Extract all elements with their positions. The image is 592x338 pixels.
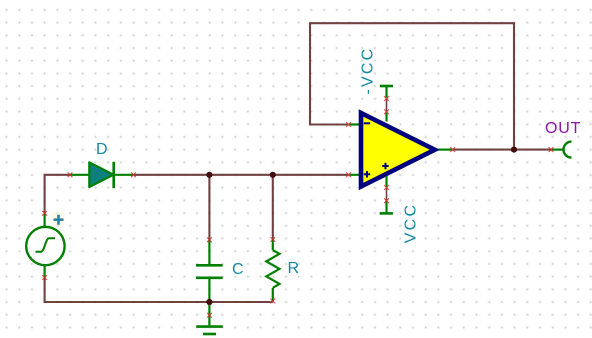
capacitor C (196, 240, 223, 302)
svg-text:-VCC: -VCC (360, 47, 377, 95)
pin marks: negative supply (384, 96, 389, 101)
pin mark: OUT terminal (549, 147, 554, 152)
wire: diode cathode to op-amp non-inverting input (134, 174, 349, 176)
voltage source (26, 213, 64, 277)
resistor R (266, 240, 279, 302)
wire: bottom rail from source to resistor (45, 278, 273, 303)
svg-text:D: D (96, 141, 108, 158)
OUT terminal (551, 142, 572, 158)
negative supply rail -VCC (380, 86, 393, 122)
diode D (70, 162, 133, 188)
wire: op-amp output to OUT terminal (453, 149, 552, 151)
pin marks: diode (68, 172, 73, 177)
svg-text:C: C (232, 261, 244, 278)
junction node: diode/cap (206, 172, 212, 178)
svg-text:OUT: OUT (545, 120, 581, 137)
pin marks: capacitor (207, 237, 212, 242)
svg-text:R: R (288, 260, 300, 277)
wire: negative supply jumper (386, 99, 388, 112)
wire: capacitor top branch (208, 175, 210, 240)
pin marks: op-amp inputs (346, 122, 351, 127)
pin mark: op-amp output (450, 147, 455, 152)
wire: source top to diode anode (45, 175, 70, 214)
pin marks: source (42, 211, 47, 216)
wire: feedback loop from inverting input up and over to output node (310, 23, 514, 149)
label + (source polarity) (52, 213, 65, 226)
svg-text:VCC: VCC (403, 203, 420, 244)
junction node: ground rail (206, 299, 212, 305)
junction node: output feedback (511, 147, 517, 153)
pin marks: positive supply (384, 185, 389, 190)
ground (196, 302, 223, 334)
pin marks: resistor (270, 237, 275, 242)
wire: positive supply jumper (386, 188, 388, 201)
positive supply rail VCC (380, 176, 393, 213)
junction node: resistor top (270, 172, 276, 178)
wire: resistor top branch (272, 175, 274, 240)
op-amp U1 (350, 113, 453, 187)
pin marks: ground (207, 313, 212, 318)
